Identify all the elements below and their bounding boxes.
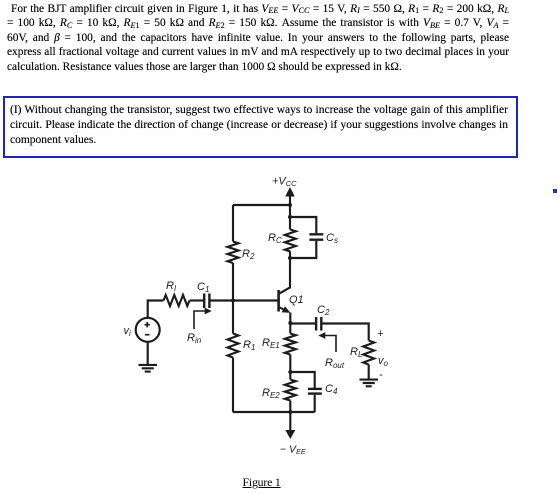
wire: RC top lead xyxy=(289,217,291,230)
node VEE junction xyxy=(288,410,292,414)
wire: C4 branch top xyxy=(290,372,314,388)
capacitor C4 xyxy=(308,389,322,394)
node RE junction xyxy=(288,370,292,374)
svg-text:vo: vo xyxy=(378,355,389,368)
svg-text:Cs: Cs xyxy=(326,232,338,245)
wire: source top to RI xyxy=(148,301,164,319)
node RC/Cs top junction xyxy=(288,215,292,219)
svg-text:RE1: RE1 xyxy=(262,337,280,350)
svg-text:C2: C2 xyxy=(317,304,330,317)
wire: emitter to C2 xyxy=(290,322,315,324)
capacitor C1 xyxy=(204,294,209,309)
resistor RE2 xyxy=(285,380,296,401)
transistor Q1 xyxy=(279,290,291,323)
resistor RL xyxy=(363,341,374,365)
wire: RE2 leads xyxy=(289,372,291,412)
svg-text:+: + xyxy=(377,328,384,340)
svg-text:RL: RL xyxy=(350,346,362,359)
svg-text:Rin: Rin xyxy=(187,332,202,345)
svg-text:R1: R1 xyxy=(243,339,255,352)
svg-text:C1: C1 xyxy=(197,281,209,294)
wire: top rail xyxy=(233,204,290,206)
wire: base node to Q1 base xyxy=(233,299,278,301)
svg-text:R2: R2 xyxy=(242,248,255,261)
figure caption xyxy=(243,475,281,490)
wire: Cs branch bottom xyxy=(290,241,316,258)
stray blue mark xyxy=(553,189,557,193)
resistor R1 xyxy=(228,334,239,358)
svg-text:− VEE: − VEE xyxy=(280,444,306,457)
Rin arrow marker xyxy=(194,308,212,329)
svg-text:Q1: Q1 xyxy=(289,294,304,306)
capacitor C2 xyxy=(316,317,321,331)
wire: C1 to base node xyxy=(210,299,233,301)
node base junction xyxy=(231,299,235,303)
wire: bottom rail xyxy=(233,411,315,413)
svg-text:vi: vi xyxy=(124,325,132,338)
node rail/VCC junction xyxy=(288,203,292,207)
svg-text:+VCC: +VCC xyxy=(272,176,297,189)
ground (RL) xyxy=(360,380,379,387)
wire: collector lead xyxy=(280,252,290,294)
svg-text:Rout: Rout xyxy=(325,357,345,370)
wire: RL to ground xyxy=(368,365,370,380)
wire: RI to C1 xyxy=(190,299,204,301)
wire: R2 bottom lead xyxy=(232,263,234,301)
svg-text:RC: RC xyxy=(268,232,282,245)
wire: Cs branch top xyxy=(290,217,316,233)
wire: C4 branch bottom xyxy=(314,395,316,412)
wire: emitter to RE1 xyxy=(289,323,291,334)
resistor RI xyxy=(164,295,190,306)
wire: R2 top lead xyxy=(232,205,234,242)
Rout arrow marker xyxy=(318,332,336,352)
voltage source vi xyxy=(136,318,160,342)
svg-text:RI: RI xyxy=(166,280,177,293)
node emitter junction xyxy=(288,321,292,325)
svg-text:-: - xyxy=(379,369,383,381)
node RC/Cs bottom junction xyxy=(288,256,292,260)
wire: RE1 to RE2 junction xyxy=(289,355,291,373)
wire: R1 bottom to rail xyxy=(232,358,234,413)
wire: C2 to RL xyxy=(322,324,368,341)
power +VCC arrow xyxy=(285,187,295,217)
power -VEE arrow xyxy=(285,412,295,439)
svg-text:C4: C4 xyxy=(325,383,338,396)
capacitor Cs xyxy=(309,234,323,239)
resistor R2 xyxy=(228,242,239,264)
wire: source bottom to ground xyxy=(147,341,149,364)
resistor RC xyxy=(285,230,296,252)
ground (source) xyxy=(139,365,158,372)
wire: base node to R1 xyxy=(232,301,234,334)
svg-text:RE2: RE2 xyxy=(262,387,280,400)
resistor RE1 xyxy=(285,334,296,355)
